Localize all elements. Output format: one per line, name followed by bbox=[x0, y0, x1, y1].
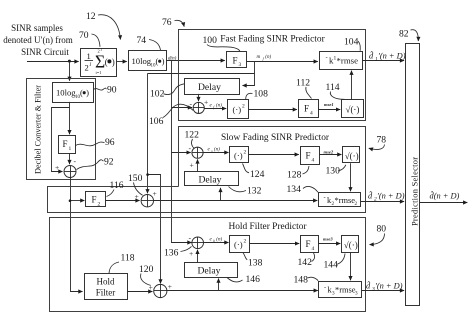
block: middle strip enclosure (slow predictor output stage) bbox=[48, 187, 366, 213]
summer 120 bbox=[154, 284, 167, 297]
svg-text:118: 118 bbox=[121, 253, 135, 264]
svg-text:Hold: Hold bbox=[97, 277, 116, 287]
squarer block 124 bbox=[230, 147, 249, 163]
wire: summer 106 into squarer 108 bbox=[204, 108, 226, 110]
svg-text:142: 142 bbox=[298, 257, 313, 268]
leader for 78 with arrow bbox=[369, 145, 385, 150]
node: signal label e_h(n) bbox=[210, 238, 223, 244]
svg-text:2: 2 bbox=[242, 104, 245, 110]
squarer block 108 bbox=[228, 100, 249, 119]
sqrt block 130 bbox=[343, 147, 360, 163]
converter block 74: 10log10(.) bbox=[129, 51, 167, 71]
svg-text:SINR samples: SINR samples bbox=[11, 23, 63, 33]
svg-text:Σ: Σ bbox=[95, 52, 105, 72]
svg-text:(n): (n) bbox=[216, 238, 222, 243]
leader for 124 bbox=[243, 164, 250, 173]
leader for 92 (wavy) bbox=[77, 160, 104, 170]
svg-text:136: 136 bbox=[164, 248, 179, 259]
svg-text:√(·): √(·) bbox=[346, 105, 360, 115]
leader for 136 bbox=[181, 246, 192, 251]
wire: summer 122 into squarer 124 bbox=[203, 152, 228, 154]
leader for 12 with arrow bbox=[98, 15, 120, 40]
wire: F4 slow to sqrt 130 bbox=[319, 154, 341, 156]
wire: F3 output m_f(n) to -k1*rmse block bbox=[247, 61, 318, 63]
summer 106 bbox=[193, 102, 204, 113]
slow Delay block 132 bbox=[185, 172, 239, 186]
svg-text:): ) bbox=[112, 57, 115, 67]
svg-text:76: 76 bbox=[162, 17, 172, 28]
leader for 114 bbox=[330, 92, 344, 100]
svg-text:): ) bbox=[86, 88, 89, 98]
svg-text:1: 1 bbox=[69, 146, 72, 152]
leader for 146 bbox=[227, 278, 243, 282]
wire: tap up into slow Delay bbox=[220, 188, 222, 201]
svg-text:90: 90 bbox=[107, 85, 117, 96]
svg-text:(·): (·) bbox=[233, 105, 242, 115]
wire: input U'(n) into averager bbox=[27, 61, 79, 63]
svg-text:2: 2 bbox=[355, 201, 358, 207]
svg-text:(·): (·) bbox=[234, 151, 243, 161]
svg-text:Slow Fading SINR Predictor: Slow Fading SINR Predictor bbox=[221, 133, 330, 143]
svg-text:112: 112 bbox=[296, 78, 310, 89]
wire: squarer 138 to F4 hold bbox=[249, 243, 299, 245]
summer 122 bbox=[192, 147, 203, 158]
svg-text:70: 70 bbox=[79, 30, 89, 41]
svg-text:*rmse: *rmse bbox=[335, 286, 356, 295]
wire: d2'(n+D) output to prediction selector bbox=[361, 201, 404, 203]
filter F2 bbox=[86, 192, 106, 208]
wire: summer 120 output into -k3*rmse3 bbox=[167, 290, 318, 292]
wire: tap from dB output into F2 bbox=[70, 200, 84, 202]
svg-text:92: 92 bbox=[104, 157, 114, 168]
svg-text:F: F bbox=[304, 104, 309, 114]
svg-text:10log: 10log bbox=[56, 88, 76, 98]
wire: 10log down to filter F1 bbox=[69, 102, 71, 134]
wire: feedback branch left then down into summer 92 bbox=[52, 108, 70, 172]
svg-text:74: 74 bbox=[137, 35, 147, 46]
wire: summer 92 output down with taps to F2 and Hold Filter bbox=[71, 178, 83, 292]
svg-text:10log: 10log bbox=[132, 56, 152, 66]
svg-text:-: - bbox=[326, 55, 328, 62]
svg-text:150: 150 bbox=[128, 173, 143, 184]
svg-text:-: - bbox=[324, 284, 326, 291]
offset block 104: -k1*rmse bbox=[320, 52, 363, 70]
svg-text:2: 2 bbox=[98, 49, 100, 54]
leader for 150 bbox=[134, 183, 143, 196]
node: junction dot at d(n) tap bbox=[146, 173, 149, 176]
leader for 108 bbox=[246, 93, 253, 99]
svg-text:+: + bbox=[149, 283, 153, 292]
svg-text:144: 144 bbox=[324, 260, 339, 271]
leader for 100 bbox=[207, 45, 240, 52]
node: signal label m_f(n) bbox=[257, 55, 272, 61]
wire: d(n) drop to summer 150 bbox=[147, 73, 149, 193]
hold Delay block 146 bbox=[185, 263, 238, 278]
svg-text:Prediction Selector: Prediction Selector bbox=[411, 157, 420, 226]
svg-text:132: 132 bbox=[247, 186, 262, 197]
svg-text:2: 2 bbox=[98, 202, 101, 208]
svg-text:(: ( bbox=[156, 56, 159, 66]
wire: d(n) from block 74 to F3 bbox=[166, 60, 225, 62]
svg-text:+: + bbox=[153, 189, 157, 198]
node: junction dot dB output to F2 bbox=[69, 199, 72, 202]
svg-text:108: 108 bbox=[254, 89, 269, 100]
leader for 70 bbox=[92, 34, 101, 47]
wire: fast Delay down into summer 106 bbox=[198, 94, 200, 101]
wire: d(n) tap dropping down bbox=[171, 61, 173, 73]
wire: F4 fast to sqrt 114 bbox=[318, 109, 340, 111]
block: Decibel Converter & Filter enclosure bbox=[27, 79, 96, 180]
wire: branch into summer 122 bbox=[172, 152, 191, 154]
node: output label d1'(n+D) bbox=[369, 50, 406, 63]
svg-text:SINR Circuit: SINR Circuit bbox=[21, 47, 69, 57]
node: signal label e_s(n) bbox=[208, 148, 221, 154]
svg-text:104: 104 bbox=[344, 37, 359, 48]
leader for 148 bbox=[308, 277, 319, 281]
offset block 148: -k3*rmse3 bbox=[319, 282, 362, 298]
wire: branch into summer 106 bbox=[172, 107, 193, 109]
svg-text:Delay: Delay bbox=[198, 82, 221, 93]
wire: d(n) distribution horizontal at y=73.4 bbox=[148, 73, 255, 75]
svg-text:78: 78 bbox=[377, 135, 387, 146]
svg-text:122: 122 bbox=[185, 130, 200, 141]
svg-text:*rmse: *rmse bbox=[335, 196, 356, 205]
svg-text:′(n + D): ′(n + D) bbox=[377, 192, 405, 201]
svg-text:2: 2 bbox=[244, 150, 247, 156]
node: signal label e_f(n) bbox=[210, 104, 223, 110]
leader for 132 bbox=[229, 187, 247, 192]
svg-text:2: 2 bbox=[244, 239, 247, 245]
averager U1: 1/2^J sum block bbox=[81, 48, 117, 77]
leader for 138 bbox=[243, 253, 247, 260]
summer 92 bbox=[64, 166, 76, 178]
node: output label d3'(n+D) bbox=[366, 280, 403, 293]
svg-text:3: 3 bbox=[355, 291, 358, 297]
svg-text:d̂(n + D): d̂(n + D) bbox=[430, 190, 460, 201]
svg-text:F: F bbox=[306, 151, 311, 161]
wire: summer 150 output m_s(n) to -k2*rmse2 block bbox=[154, 200, 318, 202]
svg-text:96: 96 bbox=[105, 137, 115, 148]
leader for 80 with arrow bbox=[370, 234, 385, 245]
svg-text:106: 106 bbox=[149, 116, 164, 127]
svg-text:′(n + D): ′(n + D) bbox=[378, 52, 406, 61]
wire: F1 down into summer 92 bbox=[69, 153, 71, 164]
svg-text:138: 138 bbox=[248, 258, 263, 269]
svg-text:(: ( bbox=[80, 88, 83, 98]
fast Delay block 102 bbox=[185, 79, 240, 95]
summer 150 bbox=[141, 195, 153, 207]
wire: d(n) drop feeding summers 106 122 136 bbox=[172, 74, 192, 243]
svg-text:mse2: mse2 bbox=[324, 150, 334, 155]
svg-text:1: 1 bbox=[87, 51, 91, 61]
leader for 128 bbox=[303, 166, 310, 174]
svg-text:4: 4 bbox=[310, 111, 313, 117]
wire: F2 output into summer 150 bbox=[106, 200, 140, 202]
svg-text:2: 2 bbox=[85, 63, 89, 73]
svg-text:′(n + D): ′(n + D) bbox=[375, 282, 403, 291]
leader for 144 bbox=[337, 254, 346, 265]
wire: d(n) tap at y=174.6 over to x=160.8 bbox=[148, 175, 161, 284]
svg-text:134: 134 bbox=[287, 184, 302, 195]
filter F3 bbox=[227, 52, 247, 69]
wire: slow Delay up into summer 122 bbox=[197, 159, 199, 171]
wire: Hold Filter output into summer 120 bbox=[127, 291, 152, 293]
filter F1 bbox=[59, 136, 76, 154]
wire: d3'(n+D) output to prediction selector bbox=[362, 290, 404, 292]
block: Prediction Selector bbox=[406, 44, 420, 306]
svg-text:denoted U′(n) from: denoted U′(n) from bbox=[3, 35, 72, 45]
wire: tap down into decibel converter 10log box bbox=[69, 61, 71, 81]
svg-text:(·): (·) bbox=[234, 240, 243, 250]
svg-text:116: 116 bbox=[110, 180, 124, 191]
svg-text:(n): (n) bbox=[265, 55, 271, 60]
converter block 90: 10log10(.) bbox=[53, 83, 94, 103]
leader for 74 bbox=[149, 40, 161, 51]
leader for 130 bbox=[338, 165, 346, 171]
svg-text:128: 128 bbox=[287, 170, 302, 181]
leader for 106 bbox=[163, 104, 193, 117]
leader for 134 bbox=[303, 186, 318, 192]
filter F4 fast bbox=[299, 100, 319, 118]
wire: d1'(n+D) output to prediction selector bbox=[363, 60, 405, 62]
leader for 120 bbox=[141, 274, 151, 286]
svg-text:+: + bbox=[189, 249, 193, 258]
leader for 116 bbox=[107, 190, 115, 197]
svg-text:Hold Filter Predictor: Hold Filter Predictor bbox=[228, 222, 307, 232]
svg-text:Fast Fading SINR Predictor: Fast Fading SINR Predictor bbox=[220, 35, 325, 45]
filter F4 hold bbox=[301, 236, 319, 253]
leader for 90 (wavy) bbox=[94, 88, 107, 90]
svg-text:12: 12 bbox=[86, 11, 96, 22]
svg-text:3: 3 bbox=[239, 62, 242, 68]
svg-text:4: 4 bbox=[312, 158, 315, 164]
leader for 122 bbox=[191, 139, 194, 149]
svg-text:(: ( bbox=[105, 57, 108, 67]
block: Fast Fading SINR Predictor enclosure bbox=[179, 30, 366, 121]
wire: m_f tap down and into fast Delay right side bbox=[243, 62, 255, 86]
block: Hold Filter Predictor enclosure bbox=[50, 218, 366, 312]
svg-text:102: 102 bbox=[150, 89, 165, 100]
node: junction dot on input wire bbox=[68, 60, 71, 63]
svg-text:114: 114 bbox=[326, 82, 340, 93]
leader for 76 with arrow bbox=[175, 20, 185, 26]
leader for 112 bbox=[306, 87, 312, 99]
wire: squarer to F4 fast bbox=[248, 109, 297, 111]
squarer block 138 bbox=[230, 236, 250, 253]
wire: sqrt 144 down into -k3*rmse3 bbox=[350, 252, 352, 280]
wire: tap up into hold Delay bbox=[218, 279, 220, 292]
svg-text:(n): (n) bbox=[214, 148, 220, 153]
svg-text:-: - bbox=[324, 195, 326, 202]
svg-text:80: 80 bbox=[377, 224, 387, 235]
svg-text:*rmse: *rmse bbox=[337, 56, 359, 66]
wire: squarer 124 to F4 slow bbox=[249, 154, 299, 156]
leader for 104 bbox=[358, 41, 360, 51]
Hold Filter block 118 bbox=[85, 274, 128, 300]
svg-text:148: 148 bbox=[294, 275, 309, 286]
wire: sqrt 130 down into -k2*rmse2 bbox=[350, 163, 352, 191]
svg-text:F: F bbox=[63, 139, 68, 149]
svg-text:+: + bbox=[190, 161, 194, 170]
svg-text:130: 130 bbox=[326, 166, 341, 177]
svg-text:100: 100 bbox=[203, 35, 218, 46]
svg-text:Delay: Delay bbox=[199, 175, 222, 186]
filter F4 slow bbox=[301, 147, 320, 165]
svg-text:F: F bbox=[306, 239, 311, 249]
svg-text:Decibel Converter & Filter: Decibel Converter & Filter bbox=[34, 85, 43, 174]
summer 136 bbox=[192, 237, 204, 249]
wire: F4 hold to sqrt 144 bbox=[319, 243, 341, 245]
wire: averager to 10log block 74 bbox=[117, 61, 127, 63]
svg-text:√(·): √(·) bbox=[344, 240, 358, 250]
svg-text:F: F bbox=[233, 56, 238, 66]
block: Slow Fading SINR Predictor enclosure bbox=[179, 127, 366, 213]
svg-text:Filter: Filter bbox=[96, 288, 116, 298]
svg-text:mse3: mse3 bbox=[323, 237, 333, 242]
offset block 134: -k2*rmse2 bbox=[319, 193, 361, 208]
svg-text:+: + bbox=[168, 282, 172, 291]
sqrt block 144 bbox=[342, 236, 359, 253]
leader for 118 bbox=[109, 262, 119, 273]
svg-text:√(·): √(·) bbox=[345, 151, 359, 161]
wire: summer 136 into squarer 138 bbox=[204, 242, 229, 244]
leader for 142 bbox=[312, 253, 315, 262]
svg-text:4: 4 bbox=[312, 246, 315, 252]
svg-text:(n): (n) bbox=[216, 104, 222, 109]
svg-text:mse1: mse1 bbox=[324, 102, 334, 107]
svg-text:): ) bbox=[162, 56, 165, 66]
svg-text:i=1: i=1 bbox=[96, 70, 102, 75]
node: input annotation "SINR samples denoted U'(n) from SINR Circuit" bbox=[3, 23, 72, 57]
svg-text:124: 124 bbox=[250, 169, 265, 180]
leader for 102 bbox=[164, 84, 185, 95]
node: output label d2'(n+D) bbox=[368, 190, 405, 203]
wire: selector output d(n+D) bbox=[420, 202, 468, 204]
svg-text:F: F bbox=[92, 195, 97, 205]
leader for 82 with arrow bbox=[411, 30, 419, 41]
svg-text:82: 82 bbox=[399, 29, 409, 40]
wire: sqrt up into -k1*rmse bbox=[351, 71, 353, 100]
sqrt block 114 bbox=[342, 100, 364, 118]
svg-text:146: 146 bbox=[246, 274, 261, 285]
svg-text:Delay: Delay bbox=[198, 266, 221, 277]
wire: hold Delay up into summer 136 bbox=[197, 250, 199, 262]
svg-text:120: 120 bbox=[139, 264, 154, 275]
svg-text:J: J bbox=[90, 63, 92, 68]
svg-text:m: m bbox=[257, 55, 261, 60]
svg-text:+: + bbox=[55, 163, 59, 172]
svg-text:+: + bbox=[135, 192, 139, 201]
leader for 96 (wavy) bbox=[76, 142, 105, 146]
svg-text:+: + bbox=[204, 98, 208, 107]
